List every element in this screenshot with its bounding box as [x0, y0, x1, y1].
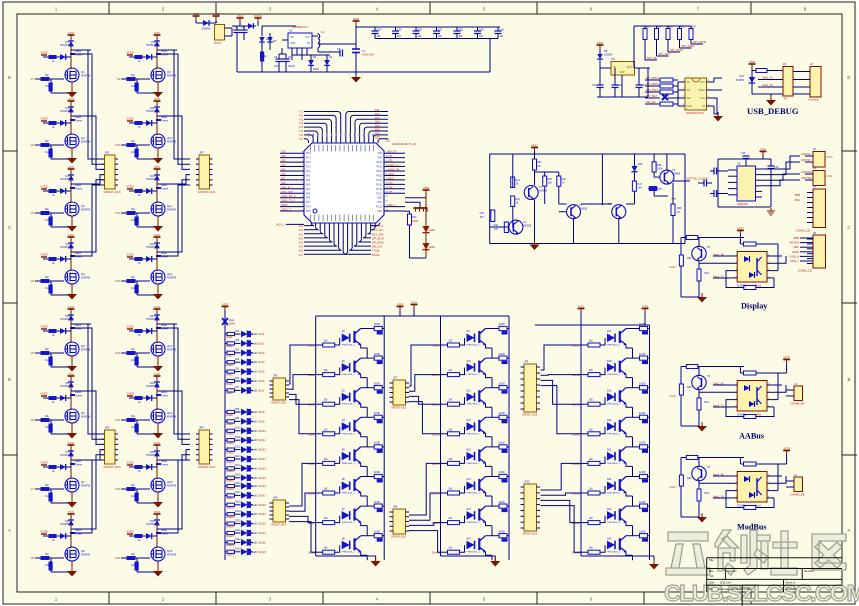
svg-text:B: B: [8, 377, 11, 382]
emitter drop row 18: [632, 378, 634, 388]
svg-text:SPI_SE: SPI_SE: [646, 100, 656, 104]
svg-text:32ch17: 32ch17: [258, 494, 267, 497]
connector J2 usb: [810, 67, 821, 98]
svg-text:CAN1_H: CAN1_H: [790, 255, 800, 258]
U2 left pin 10: [280, 161, 304, 163]
LED LED1 red: [422, 226, 429, 233]
cap C30 U6: [763, 158, 771, 160]
svg-text:60NF06: 60NF06: [167, 74, 177, 78]
svg-text:GPDS07-10LS: GPDS07-10LS: [522, 534, 538, 536]
svg-text:10k: 10k: [45, 358, 50, 362]
power VCC of cell Q5: [70, 309, 72, 313]
svg-text:VCC: VCC: [68, 31, 75, 35]
svg-text:LedB: LedB: [252, 440, 258, 442]
emitter wire row 5: [361, 463, 368, 467]
collector resistor row 12: [486, 416, 500, 418]
svg-text:SS8050: SS8050: [672, 174, 681, 176]
svg-text:D20: D20: [638, 163, 643, 166]
collector resistor row 5: [361, 446, 375, 448]
driver transistor row 4: [342, 422, 350, 431]
zener diode D of cell Q8: [70, 518, 72, 541]
cap C36 top U6: [718, 158, 746, 160]
svg-text:C24: C24: [377, 28, 382, 31]
U2 right pin 44: [384, 166, 405, 168]
capacitor C25: [395, 27, 397, 31]
svg-text:Y05: Y05: [281, 151, 286, 154]
source wire of cell Q4: [71, 284, 73, 293]
svg-text:V15: V15: [115, 487, 120, 491]
svg-text:3x330: 3x330: [499, 502, 506, 504]
U6 right wires: [762, 156, 800, 169]
ground of cell Q14: [153, 433, 163, 439]
svg-text:Q14: Q14: [167, 411, 173, 415]
collector resistor row 10: [486, 357, 500, 359]
svg-text:5V6WS: 5V6WS: [146, 177, 155, 181]
ground of cell Q7: [67, 502, 77, 508]
microcontroller U2 body: [304, 143, 384, 223]
driver transistor row 7: [342, 511, 350, 519]
bus wire cell4 to connector: [157, 180, 190, 252]
svg-text:R43: R43: [480, 212, 485, 215]
matrix gap wire row 8: [541, 506, 582, 553]
svg-text:Q2: Q2: [81, 136, 85, 140]
svg-text:Rin: Rin: [131, 347, 135, 351]
diode D1 series: [248, 23, 253, 29]
bus wire cell4 to connector: [157, 455, 190, 529]
zener diode D of cell Q5: [70, 313, 72, 336]
flash wiring loop: [677, 82, 679, 106]
bus wire cell2 to connector: [157, 391, 190, 444]
svg-text:Dual13: Dual13: [227, 462, 235, 464]
svg-text:Q9: Q9: [167, 70, 171, 74]
branch wire cell Q3: [71, 183, 91, 185]
transistor T1: [524, 186, 538, 200]
svg-text:Q13: Q13: [167, 344, 173, 348]
emitter wire row 9: [486, 345, 493, 349]
zener diode D of cell Q15: [156, 449, 158, 472]
gate pulldown resistor of cell Q15: [136, 489, 138, 497]
svg-text:Y31: Y31: [388, 155, 393, 158]
svg-text:JP7: JP7: [393, 377, 398, 380]
svg-text:D214: D214: [235, 465, 241, 467]
svg-text:10k: 10k: [45, 494, 50, 498]
series resistors to flash: [645, 79, 660, 81]
svg-text:D26: D26: [235, 378, 240, 380]
ground of cell Q4: [67, 294, 77, 300]
svg-text:10K: 10K: [638, 187, 643, 190]
matrix gap wire row 7: [289, 516, 316, 522]
svg-text:V10: V10: [115, 143, 120, 147]
svg-text:10k: 10k: [45, 563, 50, 567]
svg-text:10k: 10k: [131, 494, 136, 498]
resistor feed AAB: [686, 365, 698, 369]
U2 right pin 43: [384, 161, 405, 163]
MOSFET Q6: [70, 398, 72, 410]
svg-text:VDD: VDD: [531, 143, 538, 147]
MOSFET Q3: [70, 191, 72, 203]
svg-text:3x330: 3x330: [639, 472, 646, 474]
svg-text:5V6WS: 5V6WS: [60, 109, 69, 113]
resistor top Mod: [744, 462, 757, 466]
ground usb debug: [770, 94, 772, 99]
svg-text:Rin: Rin: [131, 139, 135, 143]
resistor bottom Disp: [744, 286, 756, 290]
svg-text:32ch6: 32ch6: [258, 380, 265, 383]
svg-text:60NF06: 60NF06: [167, 415, 177, 419]
indicator LED D46 row: [225, 380, 227, 382]
svg-text:Y17: Y17: [299, 111, 304, 114]
branch wire cell Q11: [157, 183, 177, 185]
resistor bottom AAB: [744, 415, 756, 419]
svg-text:V2: V2: [31, 143, 35, 147]
svg-text:COM485_AB: COM485_AB: [790, 403, 804, 406]
ground of cell Q16: [153, 571, 163, 577]
svg-text:VCC: VCC: [68, 372, 75, 376]
svg-text:LedB: LedB: [252, 459, 258, 461]
power VCC of cell Q11: [156, 169, 158, 173]
svg-text:PC5: PC5: [306, 210, 311, 213]
svg-text:LedB: LedB: [252, 450, 258, 452]
ground matrix 2: [494, 556, 496, 561]
LED branch of cell Q14: [129, 397, 157, 399]
svg-text:VCC: VCC: [154, 233, 161, 237]
svg-text:J1: J1: [215, 20, 218, 24]
svg-text:SPI_MOSI: SPI_MOSI: [693, 40, 706, 44]
svg-text:3x330: 3x330: [639, 413, 646, 415]
svg-text:LedB: LedB: [252, 533, 258, 535]
svg-text:P1: P1: [783, 62, 787, 66]
svg-text:X07: X07: [281, 177, 286, 180]
resistor R49: [672, 183, 674, 204]
svg-text:CAN1_RX_2: CAN1_RX_2: [281, 195, 296, 198]
svg-text:5V6WS: 5V6WS: [146, 317, 155, 321]
svg-text:PHE13003_J: PHE13003_J: [467, 345, 480, 347]
mcu ground earth bar: [405, 202, 420, 207]
svg-text:3x330: 3x330: [639, 502, 646, 504]
svg-text:60NF06: 60NF06: [81, 553, 91, 557]
branch wire cell Q5: [71, 323, 91, 325]
U2 right pin 54: [384, 210, 405, 212]
svg-text:V11: V11: [115, 211, 120, 215]
emitter drop row 23: [632, 526, 634, 536]
ground matrix 1: [375, 556, 377, 561]
net label MOTION_CLOSE: [673, 180, 690, 182]
svg-text:60NF06: 60NF06: [167, 553, 177, 557]
svg-text:D16: D16: [467, 537, 472, 540]
collector resistor row 11: [486, 387, 500, 389]
svg-text:Rin: Rin: [131, 275, 135, 279]
svg-text:Rin: Rin: [131, 414, 135, 418]
svg-text:File:: File:: [709, 588, 714, 591]
svg-text:VDD: VDD: [737, 226, 744, 230]
emitter drop row 15: [491, 526, 493, 536]
svg-text:PHE13003_J: PHE13003_J: [607, 522, 620, 524]
svg-text:VCC: VCC: [154, 305, 161, 309]
svg-text:D21: D21: [235, 331, 240, 333]
LED branch of cell Q9: [129, 56, 157, 58]
svg-text:JP9: JP9: [524, 361, 529, 364]
svg-text:SPI_MOSI: SPI_MOSI: [372, 242, 384, 245]
svg-text:Q1: Q1: [81, 70, 85, 74]
capacitor C29: [477, 27, 479, 31]
zener D19 LED column: [222, 318, 228, 325]
LED branch of cell Q5: [43, 330, 71, 332]
connector JP2: [199, 155, 210, 189]
svg-text:32ch8: 32ch8: [258, 411, 265, 414]
svg-text:D27: D27: [235, 387, 240, 389]
svg-text:D21: D21: [607, 449, 612, 452]
collector resistor row 18: [626, 357, 640, 359]
svg-text:SS8050: SS8050: [579, 209, 588, 211]
transistor T of Mod: [692, 466, 706, 480]
emitter drop row 1: [366, 348, 368, 358]
resistor RP5 pullup: [690, 26, 692, 29]
svg-text:JP4: JP4: [199, 426, 204, 430]
gate pulldown resistor of cell Q5: [50, 353, 52, 361]
branch wire cell Q12: [157, 251, 177, 253]
svg-text:CAN1_TX_2: CAN1_TX_2: [281, 200, 296, 203]
svg-text:Rin: Rin: [45, 552, 49, 556]
MOSFET Q10: [156, 123, 158, 135]
emitter drop row 9: [491, 348, 493, 358]
power VCC of cell Q12: [156, 237, 158, 241]
collector resistor row 4: [361, 416, 375, 418]
zener diode D of cell Q1: [70, 39, 72, 62]
svg-text:USB_DEBUG: USB_DEBUG: [747, 106, 799, 116]
driver transistor row 16: [467, 541, 475, 550]
svg-text:3x330: 3x330: [499, 354, 506, 356]
matrix gap wire row 3: [409, 396, 441, 404]
svg-text:Dual3: Dual3: [227, 356, 234, 358]
svg-text:PHE13003_J: PHE13003_J: [467, 522, 480, 524]
resistor R47: [632, 181, 636, 191]
MOSFET Q14: [156, 398, 158, 410]
driver transistor row 6: [342, 482, 350, 491]
svg-text:PHE13003_J: PHE13003_J: [467, 463, 480, 465]
svg-text:JP3: JP3: [105, 426, 110, 430]
svg-text:Green: Green: [75, 187, 83, 191]
svg-text:32ch3: 32ch3: [258, 352, 265, 355]
svg-text:SW_CLK: SW_CLK: [372, 246, 383, 249]
inductor L1: [318, 34, 320, 39]
emitter drop row 17: [632, 348, 634, 358]
svg-text:D221: D221: [235, 530, 241, 532]
svg-text:VLED: VLED: [40, 392, 47, 396]
svg-text:3x330: 3x330: [639, 531, 646, 533]
svg-text:32ch13: 32ch13: [258, 458, 267, 461]
driver transistor row 1: [342, 334, 350, 343]
svg-text:VCC: VCC: [68, 510, 75, 514]
indicator LED D50 row: [225, 430, 227, 432]
svg-text:VCC: VCC: [68, 305, 75, 309]
svg-text:PHE13003_J: PHE13003_J: [467, 493, 480, 495]
svg-text:GND: GND: [687, 105, 693, 108]
svg-text:10k: 10k: [131, 218, 136, 222]
matrix gap wire row 5: [409, 463, 441, 515]
emitter wire row 10: [486, 374, 493, 378]
svg-text:A4: A4: [710, 574, 714, 578]
svg-text:Y33: Y33: [388, 182, 393, 185]
emitter wire row 23: [626, 522, 633, 526]
svg-text:5V6WS: 5V6WS: [146, 522, 155, 526]
watermark logo glyphs: [664, 530, 859, 606]
driver transistor row 11: [467, 393, 475, 402]
svg-text:D217: D217: [235, 492, 241, 494]
svg-text:C32: C32: [617, 84, 622, 87]
collector resistor row 17: [626, 328, 640, 330]
svg-text:PA0: PA0: [306, 170, 311, 173]
svg-text:3x330: 3x330: [374, 472, 381, 474]
MOSFET Q12: [156, 259, 158, 271]
emitter wire row 20: [626, 433, 633, 437]
bus wire cell3 to connector: [157, 450, 190, 460]
driver transistor row 5: [342, 452, 350, 461]
resistor R13 led chain: [405, 211, 410, 214]
svg-text:32ch10: 32ch10: [258, 430, 267, 433]
ground bus of U5 section: [597, 96, 648, 98]
diode D20 analog: [634, 154, 636, 166]
source wire of cell Q8: [71, 561, 73, 570]
bus wire cell4b to connector: [157, 185, 190, 256]
svg-text:Dual7: Dual7: [227, 393, 234, 395]
svg-text:X06: X06: [281, 182, 286, 185]
svg-text:MOTION_CLOSE: MOTION_CLOSE: [687, 177, 708, 181]
U2 left pin 18: [280, 197, 304, 199]
svg-text:R13: R13: [412, 216, 417, 219]
svg-text:SS34: SS34: [313, 68, 320, 71]
resistor base AAB: [679, 384, 683, 395]
emitter drop row 7: [366, 526, 368, 536]
svg-text:VLED: VLED: [40, 530, 47, 534]
svg-text:Dual5: Dual5: [227, 374, 234, 376]
svg-text:GPIO1_1: GPIO1_1: [281, 209, 292, 212]
svg-text:U1: U1: [289, 29, 293, 33]
U2 left pin 21: [280, 210, 304, 212]
svg-text:WP: WP: [687, 97, 691, 100]
emitter drop row 11: [491, 407, 493, 417]
collector resistor row 20: [626, 416, 640, 418]
svg-text:LedB: LedB: [252, 468, 258, 470]
diode D8: [599, 49, 601, 54]
svg-text:PC12: PC12: [376, 206, 383, 209]
svg-text:SPI_MISO: SPI_MISO: [682, 44, 696, 48]
svg-text:TX232: TX232: [372, 250, 380, 253]
left rail column 3: [580, 325, 582, 556]
svg-text:D24: D24: [607, 537, 612, 540]
bus wire cell1 to connector: [71, 324, 104, 434]
gate pulldown resistor of cell Q2: [50, 145, 52, 153]
emitter wire row 3: [361, 404, 368, 408]
power VDD matrix 1: [399, 307, 401, 311]
svg-text:PA15: PA15: [376, 183, 382, 186]
branch wire cell Q10: [157, 115, 177, 117]
svg-text:Green: Green: [75, 119, 83, 123]
gate pulldown resistor of cell Q7: [50, 489, 52, 497]
svg-text:VDD: VDD: [397, 302, 404, 306]
svg-text:VCC: VCC: [68, 97, 75, 101]
driver transistor row 22: [607, 482, 615, 491]
svg-text:LedB: LedB: [252, 431, 258, 433]
svg-text:5V6WS: 5V6WS: [146, 384, 155, 388]
resistor base Mod: [679, 475, 683, 486]
LED branch of cell Q6: [43, 397, 71, 399]
svg-text:GPDS07-10LS: GPDS07-10LS: [198, 465, 215, 469]
svg-text:D215: D215: [235, 475, 241, 477]
svg-text:D10: D10: [739, 75, 744, 78]
ground of cell Q12: [153, 294, 163, 300]
svg-text:VCC: VCC: [154, 510, 161, 514]
svg-text:VLED: VLED: [40, 185, 47, 189]
top zone divider ticks: [108, 2, 110, 14]
svg-text:D22: D22: [607, 478, 612, 481]
svg-text:32ch9: 32ch9: [258, 420, 265, 423]
svg-text:3x330: 3x330: [639, 354, 646, 356]
svg-text:U5: U5: [611, 57, 615, 61]
svg-text:D19: D19: [607, 389, 612, 392]
svg-text:X11: X11: [299, 229, 304, 232]
regulator U5: [611, 62, 635, 76]
svg-text:Green: Green: [161, 463, 169, 467]
svg-text:HOLD: HOLD: [698, 89, 705, 92]
bus wire cell1b to connector: [71, 54, 104, 164]
svg-text:PHE13003_J: PHE13003_J: [342, 433, 355, 435]
svg-text:ZD: ZD: [273, 39, 277, 43]
source wire of cell Q2: [71, 148, 73, 157]
svg-text:VIN: VIN: [290, 36, 294, 39]
svg-text:GPDS07-10LS: GPDS07-10LS: [522, 415, 538, 417]
power VCC of cell Q10: [156, 101, 158, 105]
matrix gap wire row 5: [289, 463, 316, 506]
svg-text:GND: GND: [377, 197, 383, 200]
svg-text:VLED: VLED: [126, 325, 133, 329]
supply ground rail: [237, 71, 490, 73]
svg-text:LedB: LedB: [252, 381, 258, 383]
svg-text:60NF06: 60NF06: [167, 348, 177, 352]
svg-text:Rin: Rin: [45, 483, 49, 487]
svg-text:LedB: LedB: [252, 514, 258, 516]
svg-text:Dual10: Dual10: [227, 434, 235, 436]
LED branch of cell Q13: [129, 330, 157, 332]
power VCC matrix 2: [580, 309, 582, 313]
svg-text:Dual14: Dual14: [227, 471, 235, 473]
U2 left pin 20: [280, 206, 304, 208]
svg-text:LedB: LedB: [252, 343, 258, 345]
svg-text:10k: 10k: [131, 358, 136, 362]
svg-text:5V6WS: 5V6WS: [60, 317, 69, 321]
svg-text:PHE13003_J: PHE13003_J: [607, 463, 620, 465]
source wire of cell Q3: [71, 216, 73, 225]
svg-text:E:\lichuang\32channel.SchDoc: E:\lichuang\32channel.SchDoc: [718, 588, 753, 591]
U2 left pin 8: [280, 152, 304, 154]
left rail column 2: [440, 316, 442, 556]
emitter wire row 21: [626, 463, 633, 467]
svg-text:5V6WS: 5V6WS: [60, 522, 69, 526]
power VCC of cell Q1: [70, 35, 72, 39]
svg-text:R21: R21: [657, 27, 662, 29]
svg-text:Dual19: Dual19: [227, 517, 235, 519]
emitter wire row 18: [626, 374, 633, 378]
emitter drop row 10: [491, 378, 493, 388]
connector COM485_AB: [794, 386, 803, 401]
MOSFET Q1: [70, 57, 72, 69]
power VCC of cell Q3: [70, 169, 72, 173]
svg-text:VDD: VDD: [760, 147, 767, 151]
transistor T5: [660, 170, 674, 184]
LED branch of cell Q12: [129, 258, 157, 260]
matrix bottom wires: [316, 555, 376, 557]
LED branch of cell Q4: [43, 258, 71, 260]
svg-text:JP2: JP2: [199, 151, 204, 155]
